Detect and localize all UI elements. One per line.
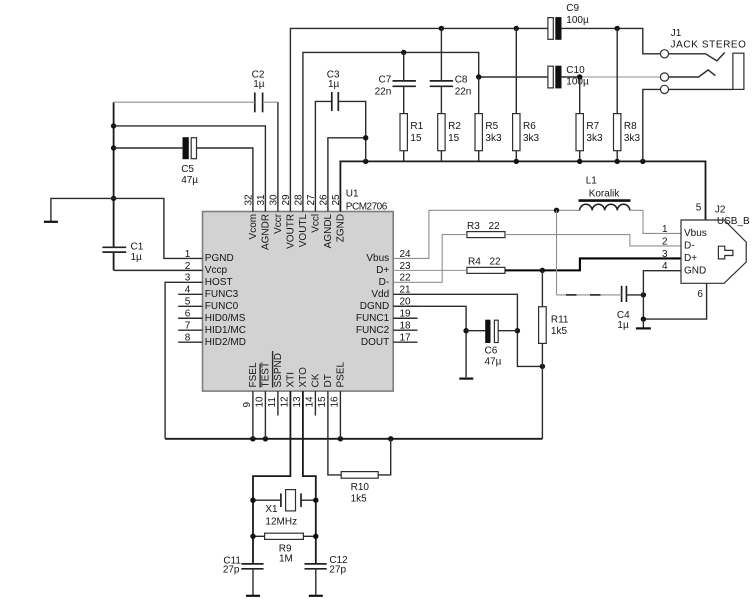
svg-text:FUNC3: FUNC3 <box>205 289 239 300</box>
svg-text:U1: U1 <box>346 189 359 200</box>
svg-text:Vbus: Vbus <box>684 228 707 239</box>
svg-text:47µ: 47µ <box>181 175 198 186</box>
svg-text:3: 3 <box>662 249 668 260</box>
svg-text:2: 2 <box>662 236 668 247</box>
svg-text:D+: D+ <box>376 265 389 276</box>
svg-text:3k3: 3k3 <box>485 133 502 144</box>
resistor R5 <box>478 77 480 114</box>
svg-text:XTI: XTI <box>285 372 296 388</box>
svg-text:AGNDL: AGNDL <box>323 213 334 248</box>
wire D+ net (pin 23 to R4) <box>393 269 467 271</box>
junction D+-R11 <box>540 268 545 273</box>
svg-text:1µ: 1µ <box>253 79 265 90</box>
junction GND-pin6 <box>641 316 646 321</box>
svg-text:R8: R8 <box>624 121 637 132</box>
wire Vbus to USB pin 1 <box>630 210 681 233</box>
svg-text:R10: R10 <box>351 482 370 493</box>
svg-text:VOUTL: VOUTL <box>298 213 309 247</box>
wire TEST pin 10 <box>264 391 266 439</box>
svg-text:USB_B: USB_B <box>717 216 750 227</box>
crystal X1 <box>253 499 281 501</box>
junction AGNDL-C3 <box>363 135 368 140</box>
svg-text:R5: R5 <box>485 121 498 132</box>
connector J1 JACK STEREO <box>660 28 746 93</box>
junction VOUTR-R6 <box>514 26 519 31</box>
svg-text:FUNC1: FUNC1 <box>356 313 390 324</box>
svg-text:HOST: HOST <box>205 277 233 288</box>
wire Vbus net (pin 24 to L1) <box>393 210 579 258</box>
svg-text:13: 13 <box>292 396 303 408</box>
wire Vccl net (pin 27 to C3) <box>315 101 331 211</box>
svg-text:AGNDR: AGNDR <box>261 214 272 250</box>
svg-text:18: 18 <box>399 321 411 332</box>
svg-text:1µ: 1µ <box>617 320 629 331</box>
svg-text:TEST: TEST <box>260 362 271 388</box>
svg-text:C9: C9 <box>566 3 579 14</box>
wire AGNDL net (pin 26) <box>328 138 366 212</box>
capacitor C1 <box>102 246 126 248</box>
IC U1 PCM2706 <box>178 189 417 408</box>
wire FSEL pin 9 <box>252 391 254 439</box>
svg-text:27p: 27p <box>329 564 346 575</box>
wire DGND net (pin 20 to ground) <box>393 306 466 377</box>
junction Vdd-C6 <box>515 328 520 333</box>
wire XTI net (pin 12 to crystal left) <box>253 391 290 564</box>
junction DGND-C6 <box>463 328 468 333</box>
svg-text:SSPND: SSPND <box>273 353 284 387</box>
wire jack sleeve to AGND bus <box>643 89 661 161</box>
svg-text:3k3: 3k3 <box>523 133 540 144</box>
wire right channel (C9 to jack tip) <box>561 28 660 53</box>
svg-text:1µ: 1µ <box>131 252 143 263</box>
wire XTO net (pin 13 to crystal right) <box>303 391 316 564</box>
svg-text:FUNC0: FUNC0 <box>205 301 239 312</box>
junction X1 left <box>250 498 255 503</box>
junction C10-R7 <box>577 74 582 79</box>
svg-text:C8: C8 <box>455 75 468 86</box>
capacitor C3 <box>331 92 333 111</box>
svg-text:17: 17 <box>399 333 411 344</box>
svg-text:PGND: PGND <box>205 253 234 264</box>
wire C4 left <box>557 294 622 296</box>
resistor R10 <box>328 391 341 475</box>
junction bus-jack sleeve <box>640 159 645 164</box>
resistor R2 <box>438 114 445 151</box>
junction VOUTL-R5 <box>476 74 481 79</box>
svg-text:R3: R3 <box>467 221 480 232</box>
svg-text:J1: J1 <box>671 28 682 39</box>
capacitor C7 <box>393 80 416 82</box>
svg-text:FSEL: FSEL <box>248 362 259 387</box>
svg-text:12: 12 <box>280 396 291 408</box>
capacitor C5 <box>183 138 188 159</box>
svg-text:Vccl: Vccl <box>311 214 322 233</box>
capacitor C2 <box>254 93 256 113</box>
svg-text:1k5: 1k5 <box>551 326 568 337</box>
svg-text:3k3: 3k3 <box>624 133 641 144</box>
svg-text:D+: D+ <box>684 253 697 264</box>
svg-text:Vdd: Vdd <box>371 289 389 300</box>
wire VOUTR net (pin 29 riser and top row) <box>290 28 548 211</box>
wire D- net (pin 22 through R3 to USB pin 2) <box>393 235 467 283</box>
wire VOUTL net (pin 28 riser, row, jog to C10) <box>303 52 548 211</box>
junction rail-ground <box>111 196 116 201</box>
svg-text:15: 15 <box>317 396 328 408</box>
wire AGND left rail <box>113 102 115 247</box>
svg-text:100µ: 100µ <box>566 15 589 26</box>
svg-text:R2: R2 <box>448 121 461 132</box>
wire D+ net (R4 to USB pin 3) <box>505 258 681 270</box>
svg-text:R6: R6 <box>523 121 536 132</box>
svg-text:22: 22 <box>489 221 501 232</box>
svg-text:4: 4 <box>662 261 668 272</box>
svg-text:12MHz: 12MHz <box>265 517 297 528</box>
svg-text:HID0/MS: HID0/MS <box>205 313 246 324</box>
svg-text:6: 6 <box>697 289 703 300</box>
junction R9 left <box>250 534 255 539</box>
ground <box>315 569 317 596</box>
capacitor C10 <box>548 66 553 88</box>
svg-text:R1: R1 <box>410 121 423 132</box>
svg-text:ZGND: ZGND <box>336 214 347 242</box>
svg-text:Koralik: Koralik <box>589 188 621 199</box>
svg-text:JACK STEREO: JACK STEREO <box>671 40 747 51</box>
svg-text:D-: D- <box>684 241 695 252</box>
svg-text:Vcom: Vcom <box>248 214 259 240</box>
svg-text:R7: R7 <box>586 121 599 132</box>
svg-text:4: 4 <box>185 285 191 296</box>
junction rail-C5 <box>111 145 116 150</box>
junction VOUTR-C8 <box>439 26 444 31</box>
junction Vbus-C4 branch <box>554 208 559 213</box>
svg-text:9: 9 <box>242 402 253 408</box>
svg-text:C7: C7 <box>379 75 392 86</box>
wire C3 right to AGND bus <box>338 101 365 161</box>
junction bus-R7 <box>577 159 582 164</box>
svg-text:7: 7 <box>185 321 191 332</box>
capacitor C4 <box>621 286 623 302</box>
svg-text:10: 10 <box>255 396 266 408</box>
wire CK pin 14 stub <box>314 391 316 415</box>
junction bus-TEST <box>263 436 268 441</box>
svg-text:1µ: 1µ <box>328 79 340 90</box>
resistor R8 <box>616 28 618 113</box>
wire AGND bus (ZGND pin 25 to USB shield) <box>340 161 705 220</box>
svg-text:DOUT: DOUT <box>361 337 389 348</box>
svg-text:HID1/MC: HID1/MC <box>205 325 246 336</box>
wire PSEL pin 16 <box>339 391 341 439</box>
svg-text:FUNC2: FUNC2 <box>356 325 390 336</box>
wire Vcom net (rail to C5 to pin 32) <box>114 147 183 149</box>
junction bus-PSEL <box>338 436 343 441</box>
svg-text:DGND: DGND <box>360 301 389 312</box>
capacitor C11 <box>241 563 263 565</box>
wire USB pin 6 to ground <box>642 295 644 319</box>
svg-text:R11: R11 <box>551 315 569 326</box>
wire AGNDR net (rail to pin 31) <box>114 126 266 212</box>
resistor R4 <box>467 267 505 273</box>
ground <box>252 569 254 596</box>
svg-text:3k3: 3k3 <box>586 133 603 144</box>
svg-text:XTO: XTO <box>298 367 309 388</box>
svg-text:C6: C6 <box>485 346 498 357</box>
junction bus-R8 <box>615 159 620 164</box>
svg-text:X1: X1 <box>265 504 278 515</box>
svg-text:Vccp: Vccp <box>205 265 228 276</box>
junction bus-R6 <box>514 159 519 164</box>
wire left channel (C10 to jack ring) <box>561 76 580 78</box>
svg-text:22: 22 <box>490 257 502 268</box>
junction Vdd-R11 <box>540 364 545 369</box>
svg-text:VOUTR: VOUTR <box>286 214 297 249</box>
resistor R11 <box>541 270 543 306</box>
junction bus-C3/AGNDL <box>363 159 368 164</box>
svg-text:CK: CK <box>310 373 321 387</box>
junction C4-GND <box>641 292 646 297</box>
ground <box>642 319 644 328</box>
wire HOST net (pin 3 to Vdd bus) <box>165 282 202 438</box>
svg-text:22n: 22n <box>455 87 472 98</box>
svg-text:Vccr: Vccr <box>273 213 284 234</box>
svg-text:C10: C10 <box>566 65 585 76</box>
svg-text:22n: 22n <box>375 87 392 98</box>
wire Vccp net (rail below C1 to pin 2) <box>114 269 203 271</box>
svg-text:L1: L1 <box>586 176 598 187</box>
svg-text:5: 5 <box>185 297 191 308</box>
wire Vdd bus <box>165 438 542 440</box>
svg-text:8: 8 <box>185 333 191 344</box>
svg-text:1M: 1M <box>279 554 293 565</box>
svg-text:27p: 27p <box>223 564 240 575</box>
svg-text:Vbus: Vbus <box>366 253 389 264</box>
svg-text:C5: C5 <box>181 164 194 175</box>
svg-text:15: 15 <box>410 133 422 144</box>
wire C4 right <box>626 294 643 296</box>
svg-text:15: 15 <box>448 133 460 144</box>
junction rail-AGNDR <box>111 123 116 128</box>
junction bus-R10 <box>388 436 393 441</box>
junction VOUTL-C7 <box>401 50 406 55</box>
svg-text:47µ: 47µ <box>485 357 502 368</box>
connector J2 USB_B <box>662 202 750 300</box>
resistor R6 <box>515 28 517 113</box>
resistor R7 <box>579 77 581 114</box>
capacitor C6 <box>486 320 490 342</box>
svg-text:5: 5 <box>696 202 702 213</box>
wire Vdd net (pin 21 to R11 bottom) <box>393 294 542 366</box>
ground <box>459 378 473 380</box>
junction X1 right <box>313 498 318 503</box>
svg-text:GND: GND <box>684 266 706 277</box>
junction R9 right <box>313 534 318 539</box>
ground <box>51 198 114 221</box>
svg-text:R4: R4 <box>468 257 481 268</box>
svg-text:DT: DT <box>323 374 334 387</box>
svg-text:1: 1 <box>662 224 668 235</box>
svg-text:1k5: 1k5 <box>351 494 368 505</box>
wire SSPND pin 11 stub <box>277 391 279 415</box>
svg-text:D-: D- <box>379 277 390 288</box>
svg-text:16: 16 <box>330 396 341 408</box>
svg-text:PSEL: PSEL <box>335 361 346 387</box>
svg-text:14: 14 <box>305 396 316 408</box>
junction bus-FSEL <box>250 436 255 441</box>
svg-text:11: 11 <box>267 397 278 408</box>
capacitor C8 <box>430 80 453 82</box>
resistor R1 <box>400 114 407 151</box>
wire Vbus branch down to C4 <box>556 210 558 295</box>
capacitor C9 <box>548 18 553 40</box>
resistor R9 <box>265 533 304 539</box>
junction C9-R8 <box>615 26 620 31</box>
inductor L1 Koralik <box>580 204 630 210</box>
capacitor C12 <box>305 563 327 565</box>
wire Vccr net (rail to C2 to pin 30) <box>114 101 255 103</box>
svg-text:HID2/MD: HID2/MD <box>205 337 246 348</box>
wire PGND net (rail to pin 1) <box>114 198 203 258</box>
svg-text:19: 19 <box>399 309 411 320</box>
svg-text:J2: J2 <box>715 205 726 216</box>
svg-text:PCM2706: PCM2706 <box>346 201 388 212</box>
svg-text:6: 6 <box>185 309 191 320</box>
wire USB GND (pin 4) <box>643 271 681 295</box>
resistor R3 <box>467 232 505 238</box>
